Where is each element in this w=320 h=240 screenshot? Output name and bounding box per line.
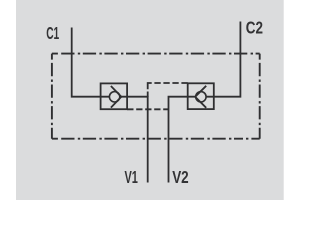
svg-text:V2: V2 (172, 167, 189, 187)
svg-text:V1: V1 (125, 167, 139, 187)
svg-text:C1: C1 (46, 23, 59, 43)
svg-text:C2: C2 (246, 18, 263, 38)
